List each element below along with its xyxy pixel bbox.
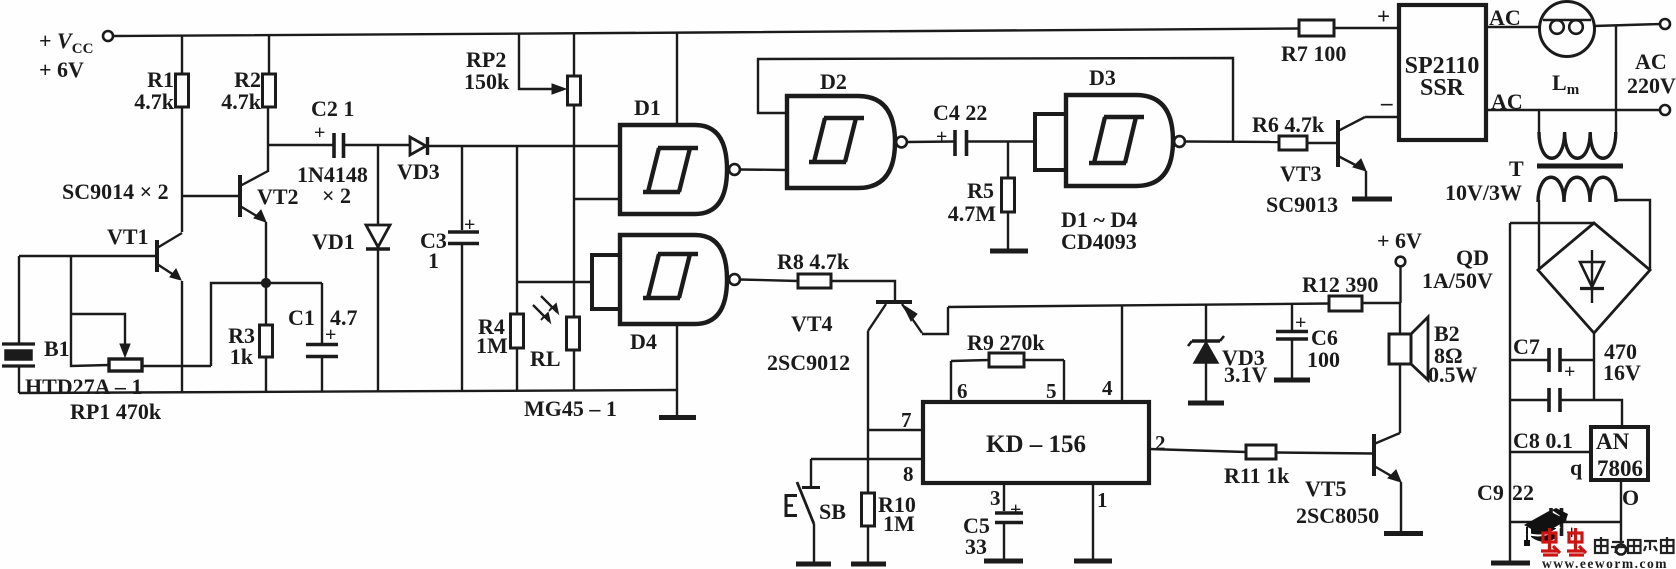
ground under C6: [1274, 378, 1310, 383]
wire R4 branch vertical: [516, 146, 518, 314]
transistor VT1: [157, 233, 182, 280]
wire R5 bottom lead: [1007, 212, 1009, 249]
wire R9 left lead: [951, 360, 989, 361]
lamp Lm: [1540, 2, 1595, 57]
D3 input tie box: [1035, 114, 1066, 170]
svg-text:AC: AC: [1635, 49, 1667, 74]
ground under VT3: [1352, 197, 1392, 202]
wire R3 bottom: [265, 357, 267, 392]
wire KD pin7: [868, 429, 923, 431]
wire top +Vcc rail: [113, 29, 1299, 37]
svg-text:2SC8050: 2SC8050: [1296, 503, 1379, 528]
capacitor C6: [1276, 304, 1308, 378]
svg-text:R6 4.7k: R6 4.7k: [1252, 112, 1325, 137]
svg-text:4: 4: [1102, 376, 1113, 400]
wire VT4 emitter to +6V rail: [922, 307, 948, 334]
wire bridge DC top corner to left rail: [1510, 222, 1594, 224]
svg-text:KD – 156: KD – 156: [986, 431, 1086, 458]
wire +6V terminal down: [1399, 266, 1401, 303]
watermark site name glyphs: [1595, 537, 1674, 553]
wire VT3 emitter down: [1365, 171, 1367, 197]
wire KD pin3 down: [1003, 483, 1005, 511]
svg-text:RL: RL: [530, 346, 561, 371]
wire R5 top lead: [1007, 142, 1009, 179]
wire VT3 collector to SSR minus: [1365, 116, 1399, 118]
wire R10 bottom: [867, 526, 869, 562]
zener VD3 3.1V: [1188, 305, 1224, 401]
node +6V terminal: [1396, 257, 1406, 267]
resistor R10: [862, 493, 875, 526]
wire VT5 emitter down: [1400, 482, 1402, 531]
svg-text:VT3: VT3: [1280, 161, 1322, 186]
wire C2 to VD1 node and VD3: [344, 144, 410, 146]
resistor R8: [798, 274, 831, 288]
svg-text:2: 2: [1155, 431, 1166, 455]
wire R8 to VT4 base: [831, 281, 895, 300]
ground under left rail: [1491, 561, 1530, 566]
wire C1 bottom lead: [321, 358, 323, 392]
wire C5 bottom: [1003, 524, 1005, 559]
ground under R5: [990, 249, 1028, 254]
piezo B1: [2, 344, 35, 366]
wire R4 node to D4 input: [517, 281, 592, 283]
D2 hysteresis symbol: [809, 118, 864, 162]
node junction emitter R3 C1: [261, 278, 270, 287]
watermark chongchong red glyph 2: [1567, 528, 1586, 555]
wire rail R7 to SSR: [1334, 27, 1399, 29]
wire KD pin2 to R11: [1149, 449, 1246, 452]
svg-text:1: 1: [1097, 488, 1108, 512]
transformer T core: [1537, 164, 1623, 169]
svg-text:SSR: SSR: [1420, 75, 1465, 101]
svg-text:7806: 7806: [1597, 456, 1643, 481]
wire VT2 emitter down: [265, 222, 267, 281]
ground under R10: [851, 562, 886, 567]
svg-text:+: +: [1377, 4, 1390, 29]
svg-text:www.eeworm.com: www.eeworm.com: [1542, 556, 1668, 569]
svg-text:D4: D4: [630, 329, 657, 354]
RP2 wiper arrow: [552, 84, 566, 94]
node AC top terminal: [1660, 19, 1670, 29]
svg-text:3.1V: 3.1V: [1224, 362, 1268, 387]
svg-text:1: 1: [428, 248, 439, 273]
wire D1 output to D2 input: [740, 168, 787, 171]
wire bottom-left ground rail: [19, 390, 677, 393]
wire C4 to D3 input: [967, 140, 1035, 142]
wire RL bottom: [573, 350, 575, 390]
switch SB: [786, 459, 820, 562]
svg-text:4.7k: 4.7k: [221, 89, 262, 114]
wire KD pin6 up: [950, 361, 952, 402]
D2 output bubble: [896, 137, 907, 148]
wire transformer primary left drop: [1538, 110, 1540, 132]
wire bridge bottom corner down: [1593, 333, 1595, 400]
ground under VT5: [1384, 531, 1423, 536]
wire R3 top: [265, 287, 267, 325]
photoresistor RL: [533, 296, 580, 350]
wire D4 output to R8: [740, 280, 798, 282]
svg-text:+: +: [464, 214, 475, 236]
ground under C5: [984, 559, 1023, 564]
svg-text:33: 33: [965, 534, 987, 559]
svg-text:C1: C1: [288, 305, 315, 330]
capacitor C1: [306, 345, 338, 357]
resistor R2: [263, 74, 276, 107]
svg-text:R9 270k: R9 270k: [967, 330, 1045, 355]
svg-text:AN: AN: [1596, 429, 1630, 454]
node +Vcc terminal: [103, 31, 113, 41]
svg-text:QD: QD: [1456, 245, 1489, 270]
ground under SB: [796, 562, 831, 567]
wire speaker to VT5 collector: [1399, 364, 1401, 433]
svg-text:VT1: VT1: [107, 224, 149, 249]
svg-text:C2 1: C2 1: [311, 96, 354, 121]
transistor VT2: [240, 171, 268, 222]
svg-text:VD1: VD1: [312, 229, 355, 254]
wire lamp to AC terminal: [1594, 24, 1660, 26]
D1 output bubble: [729, 164, 740, 175]
QD inner diode: [1580, 250, 1604, 303]
wire R12 to +6V node: [1362, 302, 1400, 304]
svg-text:0.5W: 0.5W: [1428, 362, 1478, 387]
resistor R7: [1299, 20, 1334, 36]
wire secondary right to bridge right corner: [1616, 200, 1650, 270]
wire D1 power stub top: [676, 33, 678, 125]
D4 output bubble: [729, 274, 740, 285]
potentiometer RP2: [568, 76, 581, 105]
svg-text:1A/50V: 1A/50V: [1422, 268, 1493, 293]
wire VT1 emitter down to bottom rail: [181, 281, 183, 392]
svg-text:AC: AC: [1491, 89, 1523, 114]
svg-text:O: O: [1622, 485, 1639, 510]
svg-text:6: 6: [957, 379, 968, 403]
svg-text:VD3: VD3: [397, 159, 440, 184]
svg-text:1M: 1M: [883, 511, 915, 536]
watermark graduation cap icon: [1524, 508, 1568, 546]
transistor VT5: [1374, 433, 1401, 482]
D1 hysteresis symbol: [643, 148, 698, 192]
wire RP1 left vertical: [71, 256, 109, 366]
capacitor C3: [448, 232, 479, 244]
RP1 wiper arrow: [120, 344, 130, 357]
svg-text:B1: B1: [44, 336, 70, 361]
svg-text:× 2: × 2: [322, 183, 351, 208]
potentiometer RP1: [109, 359, 142, 371]
svg-text:q: q: [1570, 455, 1583, 480]
D4 hysteresis symbol: [643, 254, 698, 298]
svg-text:7: 7: [901, 408, 912, 432]
wire node down to speaker: [1399, 303, 1401, 334]
svg-text:4.7k: 4.7k: [134, 89, 175, 114]
wire SSR AC top to lamp: [1486, 26, 1540, 28]
node AC bottom terminal: [1660, 105, 1670, 115]
svg-text:150k: 150k: [464, 69, 510, 94]
svg-text:5: 5: [1046, 379, 1057, 403]
svg-text:+: +: [1010, 499, 1021, 521]
wire RP1 right up to R3 node: [211, 283, 262, 366]
wire RP2 node to D1 lower input: [574, 198, 620, 200]
wire D2 feedback from D3 output: [758, 58, 1233, 142]
wire R1 node to VT2 base: [182, 195, 238, 197]
svg-text:VT5: VT5: [1305, 476, 1347, 501]
wire D3 output to R6: [1185, 140, 1279, 143]
svg-text:C9: C9: [1477, 480, 1504, 505]
wire D2 output to C4: [907, 140, 954, 143]
svg-text:2SC9012: 2SC9012: [767, 350, 850, 375]
svg-text:C4 22: C4 22: [933, 100, 987, 125]
wire R1 top: [181, 35, 183, 74]
capacitor C7: [1510, 348, 1594, 372]
svg-text:R12 390: R12 390: [1302, 272, 1378, 297]
svg-text:R7 100: R7 100: [1281, 41, 1346, 66]
IC U3 KD-156 box: [923, 402, 1149, 483]
svg-text:+: +: [1295, 312, 1306, 334]
wire B1 top: [18, 256, 20, 344]
svg-text:D2: D2: [820, 69, 847, 94]
wire R2 top: [268, 35, 270, 74]
wire +6V mid rail: [948, 304, 1329, 308]
svg-text:R5: R5: [967, 178, 994, 203]
svg-text:R8 4.7k: R8 4.7k: [777, 249, 850, 274]
wire R6 to VT3 base: [1307, 142, 1338, 144]
resistor R11: [1246, 445, 1276, 459]
svg-text:D3: D3: [1089, 65, 1116, 90]
wire RP2 wiper branch: [519, 33, 554, 89]
diode VD1: [366, 145, 390, 391]
IC U2 AN7806 box: [1591, 427, 1648, 480]
wire VT1 base: [19, 255, 157, 257]
ground under D4: [659, 390, 696, 418]
svg-text:220V: 220V: [1627, 73, 1676, 98]
D4 input tie box: [592, 255, 620, 309]
wire regulator input line: [1510, 451, 1591, 453]
wire regulator output down: [1620, 480, 1622, 544]
wire R11 to VT5 base: [1276, 453, 1373, 454]
resistor R3: [260, 325, 273, 357]
transformer T secondary winding: [1538, 177, 1616, 202]
capacitor C5: [995, 513, 1023, 523]
wire C3 bottom lead: [461, 245, 463, 391]
IC U1 SP2110 SSR box: [1399, 5, 1486, 140]
svg-text:RP1 470k: RP1 470k: [70, 399, 162, 424]
svg-text:+: +: [314, 122, 325, 144]
op-amp gate D2: [787, 96, 895, 188]
wire D4 bottom stub to rail: [676, 324, 678, 390]
wire R2 bottom to VT2 collector: [267, 107, 269, 172]
resistor R9: [989, 353, 1024, 367]
svg-text:+ 6V: + 6V: [1377, 228, 1422, 253]
D3 hysteresis symbol: [1089, 117, 1144, 163]
D3 output bubble: [1174, 136, 1185, 147]
capacitor C8: [1510, 388, 1594, 412]
svg-text:1M: 1M: [476, 333, 508, 358]
svg-text:D1: D1: [634, 95, 661, 120]
svg-text:CD4093: CD4093: [1061, 229, 1137, 254]
wire C8 node jog into regulator top: [1594, 400, 1622, 427]
svg-text:+: +: [325, 324, 336, 346]
wire secondary left to bridge left corner: [1538, 200, 1540, 270]
wire C1 top lead: [321, 283, 323, 343]
wire VD3 to D1 input: [428, 145, 620, 147]
ground under zener: [1188, 401, 1224, 406]
wire RP2 bottom down through RL: [573, 105, 575, 317]
svg-text:22: 22: [1512, 480, 1534, 505]
svg-text:10V/3W: 10V/3W: [1445, 180, 1522, 205]
capacitor C2: [334, 133, 344, 158]
wire node to C1: [270, 282, 322, 284]
resistor R5: [1002, 178, 1015, 212]
svg-text:4.7M: 4.7M: [948, 201, 997, 226]
wire R4 bottom: [516, 348, 518, 390]
capacitor C4: [955, 130, 967, 156]
wire C3 top lead: [461, 146, 463, 230]
wire transformer primary right drop: [1615, 26, 1617, 132]
wire KD pin8: [811, 458, 923, 460]
svg-text:8: 8: [903, 462, 914, 486]
wire KD pin5 down: [1063, 360, 1065, 402]
wire RP1 right: [142, 365, 211, 367]
svg-text:+: +: [936, 126, 947, 148]
svg-text:–: –: [1380, 90, 1393, 115]
speaker B2: [1389, 317, 1428, 380]
wire left supply rail down: [1509, 223, 1511, 561]
svg-text:VT2: VT2: [257, 184, 299, 209]
wire RP1 wiper branch: [71, 314, 125, 346]
wire B1 bottom: [18, 366, 20, 393]
wire KD pin1 down: [1092, 483, 1094, 559]
svg-text:SC9013: SC9013: [1266, 192, 1338, 217]
op-amp gate D1: [620, 125, 727, 214]
watermark chongchong red glyph 1: [1541, 528, 1560, 555]
bridge rectifier QD diamond: [1538, 223, 1650, 333]
op-amp gate D4: [620, 235, 727, 324]
svg-text:3: 3: [990, 486, 1001, 510]
svg-text:1k: 1k: [230, 344, 254, 369]
transformer T primary winding: [1539, 132, 1616, 158]
svg-text:SB: SB: [819, 499, 846, 524]
capacitor C9: [1510, 508, 1621, 536]
svg-text:R11 1k: R11 1k: [1224, 463, 1290, 488]
wire VT4 collector down to R10: [867, 331, 869, 493]
wire R9 right lead: [1024, 359, 1064, 361]
svg-text:T: T: [1509, 156, 1524, 181]
ground under pin1: [1074, 559, 1112, 564]
svg-text:C7: C7: [1513, 334, 1540, 359]
resistor R1: [176, 74, 189, 107]
svg-text:+ 6V: + 6V: [39, 57, 84, 82]
svg-text:VT4: VT4: [791, 311, 833, 336]
wire KD pin4 up to rail: [1121, 306, 1123, 402]
wire SSR AC bottom line: [1486, 109, 1660, 111]
svg-text:AC: AC: [1489, 5, 1521, 30]
node output terminal: [1616, 545, 1626, 555]
wire VT2 collector to C2: [268, 144, 333, 146]
wire RP2 top: [573, 33, 575, 76]
diode VD3: [410, 137, 428, 155]
resistor R12: [1329, 296, 1362, 311]
resistor R4: [511, 314, 524, 348]
wire R1 bottom to VT1 collector: [181, 107, 183, 232]
svg-text:+: +: [1564, 361, 1575, 383]
svg-text:C8 0.1: C8 0.1: [1513, 428, 1573, 453]
svg-text:100: 100: [1307, 347, 1340, 372]
svg-text:MG45 – 1: MG45 – 1: [524, 396, 617, 421]
transistor VT3: [1338, 117, 1366, 171]
svg-text:16V: 16V: [1603, 360, 1641, 385]
resistor R6: [1279, 136, 1307, 150]
op-amp gate D3: [1066, 95, 1173, 186]
transistor VT4: [868, 302, 922, 333]
svg-text:HTD27A – 1: HTD27A – 1: [25, 374, 142, 399]
svg-text:SC9014 × 2: SC9014 × 2: [62, 179, 169, 204]
